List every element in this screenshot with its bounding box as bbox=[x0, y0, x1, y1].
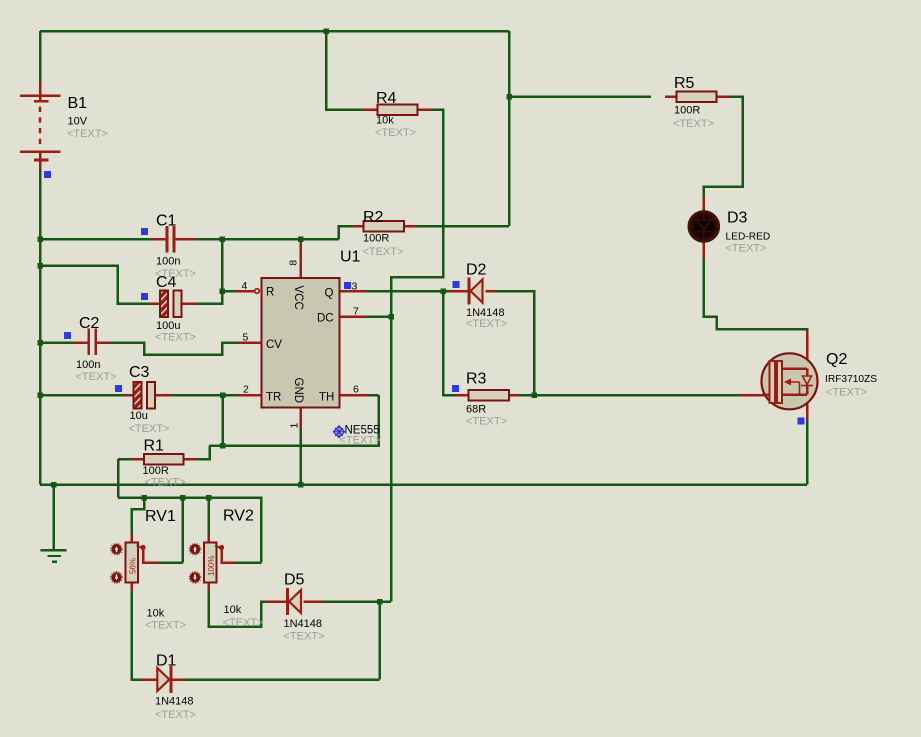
svg-text:<TEXT>: <TEXT> bbox=[340, 435, 381, 447]
svg-text:<TEXT>: <TEXT> bbox=[145, 620, 186, 632]
svg-text:U1: U1 bbox=[340, 249, 361, 266]
svg-text:RV1: RV1 bbox=[145, 508, 176, 525]
svg-text:D3: D3 bbox=[727, 210, 748, 227]
svg-text:C1: C1 bbox=[156, 213, 177, 230]
svg-text:100n: 100n bbox=[76, 359, 100, 371]
svg-text:56%: 56% bbox=[129, 558, 138, 574]
svg-text:TR: TR bbox=[266, 392, 281, 404]
svg-text:VCC: VCC bbox=[292, 286, 304, 310]
svg-text:<TEXT>: <TEXT> bbox=[375, 127, 416, 139]
svg-text:1N4148: 1N4148 bbox=[284, 618, 323, 630]
svg-text:Q2: Q2 bbox=[826, 351, 847, 368]
svg-text:<TEXT>: <TEXT> bbox=[284, 631, 325, 643]
svg-text:<TEXT>: <TEXT> bbox=[155, 709, 196, 721]
svg-text:B1: B1 bbox=[68, 95, 88, 112]
svg-text:Q: Q bbox=[325, 288, 334, 300]
svg-text:<TEXT>: <TEXT> bbox=[466, 318, 507, 330]
svg-text:2: 2 bbox=[243, 384, 249, 396]
svg-text:R1: R1 bbox=[144, 438, 165, 455]
svg-text:C3: C3 bbox=[129, 364, 150, 381]
svg-text:100u: 100u bbox=[156, 320, 180, 332]
svg-text:<TEXT>: <TEXT> bbox=[673, 118, 714, 130]
svg-text:6: 6 bbox=[353, 384, 359, 396]
svg-text:R: R bbox=[266, 287, 274, 299]
svg-text:<TEXT>: <TEXT> bbox=[223, 617, 264, 629]
svg-text:CV: CV bbox=[266, 339, 282, 351]
svg-text:10k: 10k bbox=[376, 115, 394, 127]
svg-text:100R: 100R bbox=[674, 105, 700, 117]
svg-text:<TEXT>: <TEXT> bbox=[155, 268, 196, 280]
svg-text:4: 4 bbox=[242, 280, 248, 292]
svg-text:R5: R5 bbox=[674, 75, 695, 92]
svg-text:10k: 10k bbox=[147, 608, 165, 620]
svg-text:68R: 68R bbox=[466, 404, 486, 416]
svg-text:100R: 100R bbox=[143, 465, 169, 477]
svg-text:<TEXT>: <TEXT> bbox=[826, 387, 867, 399]
svg-text:10k: 10k bbox=[224, 604, 242, 616]
svg-text:DC: DC bbox=[317, 313, 334, 325]
svg-text:<TEXT>: <TEXT> bbox=[145, 477, 186, 489]
svg-text:<TEXT>: <TEXT> bbox=[129, 423, 170, 435]
svg-text:100R: 100R bbox=[363, 233, 389, 245]
svg-text:LED-RED: LED-RED bbox=[726, 232, 771, 243]
svg-text:<TEXT>: <TEXT> bbox=[726, 243, 767, 255]
svg-text:TH: TH bbox=[319, 392, 334, 404]
svg-text:GND: GND bbox=[292, 378, 304, 404]
svg-text:<TEXT>: <TEXT> bbox=[76, 371, 117, 383]
svg-text:<TEXT>: <TEXT> bbox=[155, 332, 196, 344]
svg-text:<TEXT>: <TEXT> bbox=[363, 246, 404, 258]
svg-text:C2: C2 bbox=[79, 315, 100, 332]
svg-text:3: 3 bbox=[352, 281, 358, 293]
svg-text:RV2: RV2 bbox=[223, 508, 254, 525]
svg-text:D5: D5 bbox=[284, 572, 305, 589]
svg-text:8: 8 bbox=[288, 260, 300, 266]
svg-text:10V: 10V bbox=[68, 116, 88, 128]
svg-text:R3: R3 bbox=[466, 371, 487, 388]
svg-text:100n: 100n bbox=[156, 256, 180, 268]
svg-text:<TEXT>: <TEXT> bbox=[466, 416, 507, 428]
svg-text:R4: R4 bbox=[376, 90, 397, 107]
svg-text:R2: R2 bbox=[363, 209, 384, 226]
svg-text:100%: 100% bbox=[207, 556, 216, 576]
svg-text:5: 5 bbox=[243, 332, 249, 344]
svg-text:IRF3710ZS: IRF3710ZS bbox=[825, 374, 877, 385]
svg-text:D2: D2 bbox=[466, 262, 487, 279]
svg-text:1N4148: 1N4148 bbox=[155, 696, 194, 708]
svg-text:10u: 10u bbox=[130, 410, 148, 422]
svg-text:7: 7 bbox=[353, 306, 359, 318]
svg-text:D1: D1 bbox=[156, 653, 177, 670]
svg-text:1: 1 bbox=[288, 423, 300, 429]
svg-text:<TEXT>: <TEXT> bbox=[67, 128, 108, 140]
